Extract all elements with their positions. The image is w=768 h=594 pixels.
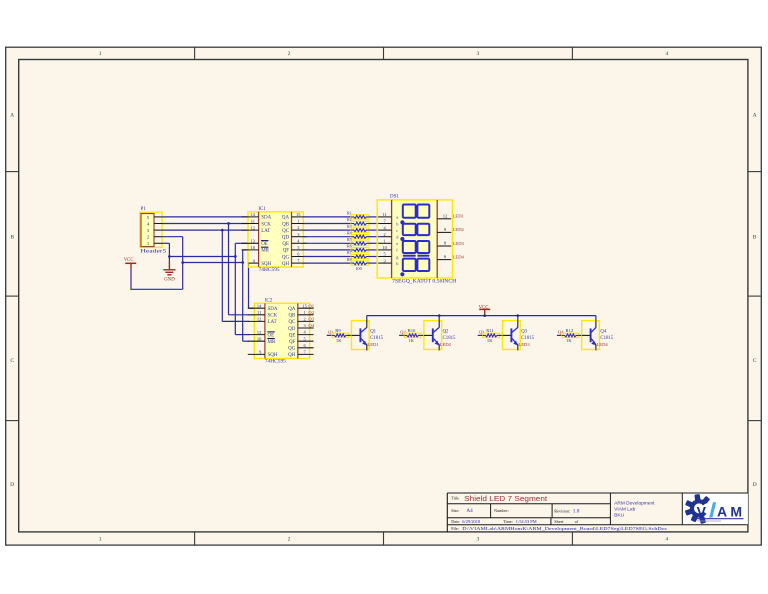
svg-text:R10: R10: [408, 328, 416, 333]
svg-text:Q4: Q4: [308, 323, 314, 328]
wire R3 to DS1: [369, 229, 378, 231]
svg-text:100: 100: [355, 266, 362, 271]
svg-text:C: C: [10, 358, 14, 364]
svg-text:QE: QE: [289, 333, 296, 338]
wire P1.5 to IC1.SDA: [162, 216, 248, 218]
logo VIAM: [685, 494, 744, 524]
svg-text:B: B: [753, 235, 757, 241]
svg-text:1: 1: [303, 310, 305, 315]
svg-text:LED1: LED1: [453, 214, 465, 219]
transistor Q4 C1815: [582, 316, 614, 351]
svg-text:QG: QG: [288, 347, 296, 352]
svg-text:SCK: SCK: [261, 222, 271, 227]
svg-text:A: A: [10, 113, 14, 119]
svg-text:12: 12: [443, 213, 448, 218]
svg-text:B: B: [10, 235, 14, 241]
svg-text:QF: QF: [289, 340, 296, 345]
svg-text:1.0: 1.0: [573, 508, 580, 514]
svg-text:QG: QG: [282, 255, 290, 260]
svg-text:C1815: C1815: [370, 336, 383, 341]
svg-text:SQH: SQH: [261, 262, 271, 267]
svg-text:LAT: LAT: [261, 229, 270, 234]
svg-text:6/29/2018: 6/29/2018: [462, 519, 481, 524]
svg-text:1: 1: [99, 537, 102, 543]
svg-text:Q2: Q2: [443, 330, 449, 335]
svg-text:LED4: LED4: [453, 254, 465, 259]
resistor R5 100: [347, 237, 369, 246]
svg-text:2: 2: [297, 225, 299, 230]
svg-text:LED3: LED3: [453, 241, 465, 246]
svg-text:7SEGQ_KATOT 0.56INCH: 7SEGQ_KATOT 0.56INCH: [392, 280, 456, 285]
svg-text:VIAM Lab: VIAM Lab: [614, 506, 635, 512]
svg-text:2: 2: [288, 537, 291, 543]
svg-text:R9: R9: [335, 328, 341, 333]
svg-text:3: 3: [477, 51, 480, 57]
wire R5 to DS1: [369, 242, 378, 244]
svg-text:Q1: Q1: [370, 330, 376, 335]
svg-text:QD: QD: [288, 327, 296, 332]
display DS1 7SEG 4-digit: [377, 195, 452, 279]
svg-text:LED2: LED2: [453, 227, 465, 232]
wire R6 to DS1: [369, 249, 378, 251]
resistor R1 100: [347, 211, 369, 219]
title block: [447, 493, 748, 532]
wire R10 to Q2 base: [421, 334, 424, 336]
svg-text:a: a: [396, 215, 398, 220]
svg-text:12: 12: [257, 317, 261, 322]
svg-text:SCK: SCK: [268, 314, 278, 319]
svg-text:QB: QB: [282, 222, 290, 227]
ground GND: [163, 263, 175, 283]
wire P1.1 GND stub: [162, 242, 169, 244]
junction GND node: [168, 255, 171, 258]
svg-text:Q2: Q2: [308, 310, 314, 315]
svg-text:Time:: Time:: [503, 519, 513, 524]
wire GND drop: [168, 243, 170, 263]
wire Q2 stub: [399, 334, 404, 336]
wire P1.3 to IC1.LAT: [162, 229, 248, 231]
wire MR to IC1 pin10: [243, 249, 248, 251]
wire MR to IC2 pin10: [243, 340, 249, 342]
svg-text:2: 2: [288, 51, 291, 57]
wire IC1 QE to R5: [303, 242, 351, 244]
wire R2 to DS1: [369, 223, 378, 225]
svg-text:2: 2: [383, 232, 385, 237]
svg-text:12: 12: [251, 225, 255, 230]
wire OE vertical: [234, 243, 236, 334]
svg-text:Number:: Number:: [494, 508, 509, 513]
wire Q1 stub: [327, 334, 332, 336]
wire IC1 QD to R4: [303, 236, 351, 238]
svg-text:SDA: SDA: [268, 307, 278, 312]
svg-text:QC: QC: [288, 320, 296, 325]
svg-text:74HC595: 74HC595: [265, 360, 287, 365]
svg-text:11: 11: [382, 212, 386, 217]
svg-text:c: c: [396, 228, 398, 233]
svg-text:1K: 1K: [408, 338, 414, 343]
svg-text:R12: R12: [566, 328, 574, 333]
junction MR chain: [241, 261, 244, 264]
wire VCC riser: [182, 237, 184, 290]
svg-text:C1815: C1815: [443, 336, 456, 341]
svg-text:D: D: [753, 482, 757, 488]
svg-text:LED2: LED2: [440, 342, 452, 347]
junction SCK drop: [227, 222, 230, 225]
transistor Q1 C1815: [352, 316, 384, 351]
resistor R6 100: [347, 244, 369, 252]
display DS1 digit segments: [401, 205, 429, 276]
wire R1 to DS1: [369, 216, 378, 218]
wire VCC symbol drop: [130, 269, 132, 290]
wire R9 to Q1 base: [349, 334, 352, 336]
resistor R4 100: [347, 230, 369, 239]
svg-text:D:\VIAMLab\ARMHomK\ARM_Develop: D:\VIAMLab\ARMHomK\ARM_Development_Board…: [462, 526, 667, 531]
svg-text:V: V: [697, 503, 707, 519]
svg-text:1K: 1K: [487, 338, 493, 343]
svg-text:Q1: Q1: [308, 303, 314, 308]
svg-text:QC: QC: [282, 229, 290, 234]
svg-text:LAT: LAT: [268, 320, 277, 325]
svg-text:R11: R11: [486, 328, 494, 333]
power VCC (rail): [479, 305, 491, 315]
wire MR vertical IC1.10 to IC2.10: [242, 250, 244, 341]
resistor R12 1K: [562, 328, 579, 343]
wire R7 to DS1: [369, 256, 378, 258]
svg-text:Q3: Q3: [308, 317, 314, 322]
svg-text:QD: QD: [282, 236, 290, 241]
svg-text:QA: QA: [282, 216, 290, 221]
wire LAT to IC2 pin12: [222, 320, 248, 322]
svg-text:MR: MR: [268, 340, 276, 345]
resistor R2 100: [347, 217, 369, 226]
svg-text:BKU: BKU: [614, 513, 624, 519]
wire R12 to Q4 base: [579, 334, 582, 336]
svg-text:C: C: [753, 358, 757, 364]
svg-text:MR: MR: [261, 249, 269, 254]
svg-text:SDA: SDA: [261, 216, 271, 221]
svg-text:LED3: LED3: [518, 342, 530, 347]
wire OE to IC1 pin13: [235, 242, 248, 244]
junction VCC riser: [181, 261, 184, 264]
wire R4 to DS1: [369, 236, 378, 238]
svg-text:4: 4: [665, 51, 668, 57]
svg-text:Shield LED 7 Segment: Shield LED 7 Segment: [464, 494, 548, 503]
svg-text:1K: 1K: [336, 338, 342, 343]
svg-text:Revision:: Revision:: [554, 508, 570, 513]
wire VCC to MR chain: [183, 262, 243, 264]
svg-text:M: M: [730, 503, 742, 519]
op-amp substitute: shift register IC1 74HC595: [242, 207, 308, 273]
svg-text:Header5: Header5: [140, 249, 167, 254]
svg-text:Sheet: Sheet: [554, 519, 564, 524]
wire VCC rail: [367, 315, 596, 317]
svg-text:QH: QH: [282, 262, 290, 267]
svg-text:A4: A4: [466, 508, 473, 514]
svg-text:e: e: [396, 241, 398, 246]
svg-text:Size:: Size:: [451, 508, 459, 513]
svg-text:P1: P1: [141, 207, 147, 212]
connector P1 Header5: [140, 207, 167, 254]
svg-text:QE: QE: [282, 242, 289, 247]
svg-text:1: 1: [297, 219, 299, 224]
svg-text:Q4: Q4: [600, 330, 606, 335]
svg-text:QF: QF: [283, 249, 290, 254]
svg-text:1K: 1K: [566, 338, 572, 343]
svg-text:A: A: [717, 503, 727, 519]
svg-text:SQH: SQH: [268, 353, 278, 358]
svg-text:VCC: VCC: [124, 258, 134, 263]
svg-text:Date:: Date:: [451, 519, 460, 524]
svg-text:QB: QB: [288, 314, 296, 319]
svg-text:GND: GND: [164, 278, 175, 283]
svg-text:LED1: LED1: [367, 342, 379, 347]
resistor R8 100: [347, 257, 369, 266]
resistor R9 1K: [332, 328, 349, 343]
junction LAT drop: [221, 229, 224, 232]
wire GND to OE chain: [169, 256, 235, 258]
transistor Q2 C1815: [424, 316, 456, 351]
junction OE chain: [234, 255, 237, 258]
op-amp substitute: shift register IC2 74HC595: [248, 298, 314, 364]
wire IC1 QB to R2: [303, 223, 351, 225]
svg-text:QA: QA: [288, 307, 296, 312]
svg-text:11: 11: [257, 310, 261, 315]
svg-text:ARM Development: ARM Development: [614, 500, 655, 506]
wire P1.2 VCC net: [162, 236, 183, 238]
wire IC1 QA to R1: [303, 216, 351, 218]
svg-text:74HC595: 74HC595: [259, 268, 281, 273]
transistor Q3 C1815: [503, 316, 535, 351]
wire IC1 QC to R3: [303, 229, 351, 231]
wire VCC bottom run: [131, 288, 183, 290]
wire IC1 QH to R8: [303, 262, 351, 264]
svg-text:QH: QH: [288, 353, 296, 358]
wire P1.4 to IC1.SCK: [162, 223, 248, 225]
svg-text:Q3: Q3: [521, 330, 527, 335]
svg-text:4: 4: [665, 537, 668, 543]
wire IC1 QG to R7: [303, 256, 351, 258]
svg-text:C1815: C1815: [600, 336, 613, 341]
svg-text:1: 1: [383, 239, 385, 244]
svg-text:of: of: [575, 519, 579, 524]
display DS1 right pins LED1-LED4: [437, 213, 464, 259]
svg-text:LED4: LED4: [597, 342, 609, 347]
resistor R3 100: [347, 224, 369, 232]
svg-text:A: A: [753, 113, 757, 119]
wire LAT vertical to IC2.12: [221, 230, 223, 321]
svg-text:OE: OE: [261, 242, 268, 247]
title block texts: [451, 494, 667, 531]
svg-text:1: 1: [99, 51, 102, 57]
wire IC1.SQH to IC2.SDA: [248, 263, 250, 308]
svg-text:DS1: DS1: [390, 195, 399, 200]
svg-text:OE: OE: [268, 333, 275, 338]
wire SCK to IC2 pin11: [229, 314, 249, 316]
wire OE to IC2 pin13: [235, 334, 248, 336]
svg-text:File:: File:: [451, 526, 459, 531]
resistor R11 1K: [483, 328, 500, 343]
wire R11 to Q3 base: [500, 334, 503, 336]
wire IC1 QF to R6: [303, 249, 351, 251]
svg-text:C1815: C1815: [521, 336, 534, 341]
wire R8 to DS1: [369, 262, 378, 264]
junction rail VCC: [483, 314, 486, 317]
svg-text:2: 2: [303, 317, 305, 322]
wire SCK vertical to IC2.11: [228, 224, 230, 315]
svg-text:3: 3: [477, 537, 480, 543]
power VCC (left): [124, 258, 137, 269]
resistor R7 100: [347, 250, 369, 259]
resistor R10 1K: [404, 328, 421, 343]
svg-text:D: D: [10, 482, 14, 488]
svg-text:11: 11: [251, 219, 255, 224]
svg-text:1:54:53 PM: 1:54:53 PM: [516, 519, 537, 524]
svg-text:Title: Title: [451, 495, 459, 500]
wire Q3 stub: [478, 334, 483, 336]
wire Q4 stub: [557, 334, 562, 336]
